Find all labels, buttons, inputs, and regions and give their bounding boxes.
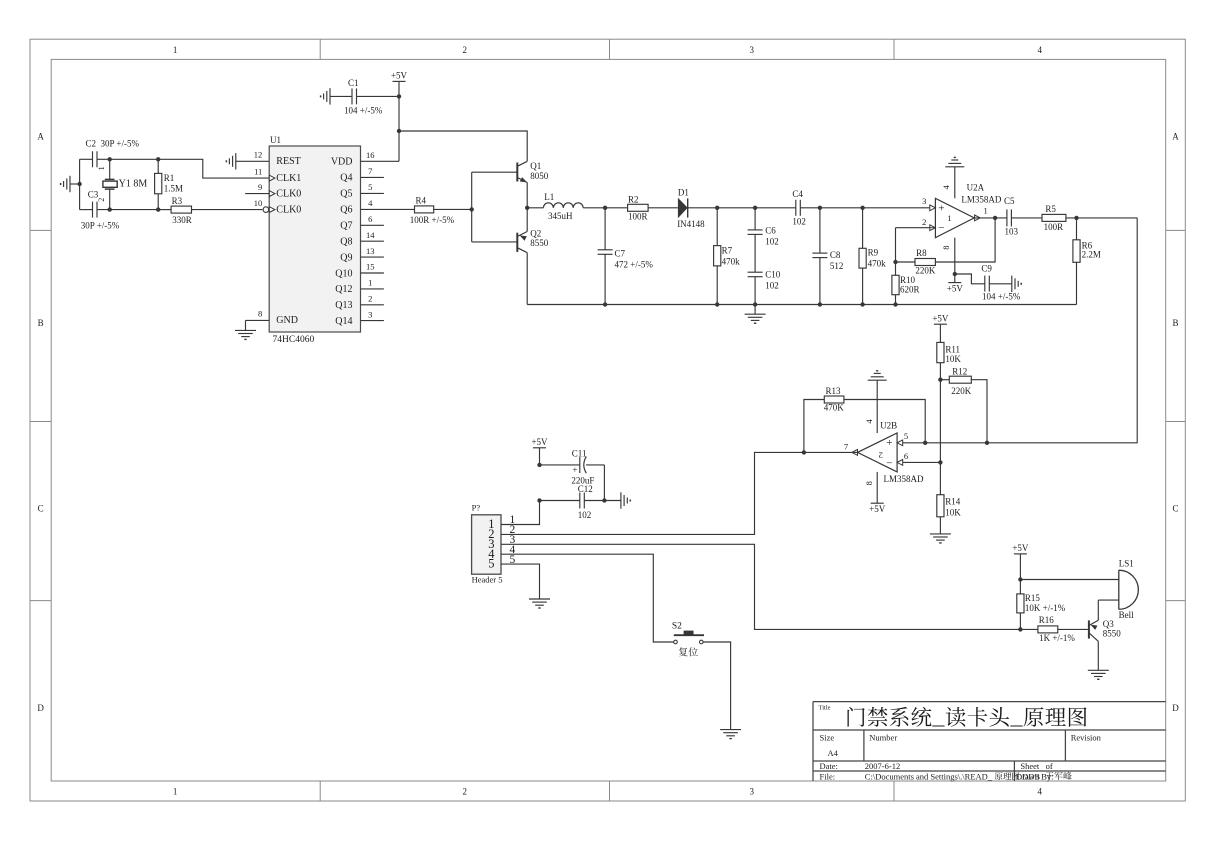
svg-text:Q4: Q4 [340, 173, 352, 184]
svg-text:C8: C8 [830, 250, 841, 260]
svg-text:2.2M: 2.2M [1082, 250, 1101, 260]
svg-text:C:\Documents and Settings\.\RE: C:\Documents and Settings\.\READ_ [865, 771, 993, 781]
svg-text:Q8: Q8 [340, 237, 352, 248]
svg-text:R4: R4 [416, 196, 427, 206]
U2A pin4 wire [941, 167, 955, 199]
svg-text:1K +/-1%: 1K +/-1% [1039, 633, 1075, 643]
svg-text:Q2: Q2 [530, 228, 541, 238]
svg-text:R15: R15 [1025, 593, 1041, 603]
svg-text:LS1: LS1 [1119, 558, 1134, 568]
svg-text:220K: 220K [915, 266, 936, 276]
wire header pin4 [501, 554, 674, 642]
svg-text:2: 2 [922, 217, 926, 227]
capacitor C7 [598, 208, 654, 305]
wire L1 to node [583, 206, 607, 210]
svg-text:6: 6 [368, 214, 372, 224]
transistor Q3 [1089, 600, 1121, 670]
svg-text:A: A [37, 132, 44, 142]
svg-text:1: 1 [173, 787, 178, 797]
svg-text:10K: 10K [945, 354, 961, 364]
node emitter junction [525, 206, 543, 210]
svg-text:R16: R16 [1039, 615, 1055, 625]
svg-text:Title: Title [819, 705, 831, 712]
svg-text:R1: R1 [164, 173, 175, 183]
svg-text:C: C [1172, 504, 1178, 514]
svg-text:R3: R3 [172, 196, 183, 206]
svg-text:4: 4 [368, 198, 373, 208]
op-amp U2A [935, 182, 1001, 237]
svg-text:U2B: U2B [880, 421, 897, 431]
transistor Q2 [517, 208, 549, 305]
svg-text:+: + [572, 465, 577, 475]
svg-text:CLK0: CLK0 [276, 204, 301, 215]
capacitor C2 [80, 139, 159, 168]
svg-text:C12: C12 [578, 484, 593, 494]
svg-text:R7: R7 [722, 245, 733, 255]
svg-text:Q14: Q14 [335, 316, 352, 327]
svg-text:U1: U1 [270, 135, 281, 145]
svg-text:D1: D1 [678, 187, 689, 197]
svg-text:C7: C7 [615, 249, 626, 259]
svg-text:+5V: +5V [1012, 543, 1029, 553]
svg-text:R14: R14 [945, 497, 961, 507]
svg-text:File:: File: [820, 771, 836, 781]
svg-text:3: 3 [922, 196, 926, 206]
speaker LS1 Bell [1119, 558, 1139, 620]
svg-text:LM358AD: LM358AD [961, 194, 1001, 204]
svg-text:470k: 470k [722, 256, 741, 266]
svg-text:3: 3 [750, 45, 755, 55]
svg-text:−: − [886, 457, 892, 469]
svg-text:Q10: Q10 [335, 268, 352, 279]
svg-text:102: 102 [578, 510, 592, 520]
ground (U2B pin4) [868, 371, 887, 380]
svg-text:4: 4 [1037, 45, 1042, 55]
svg-text:30P +/-5%: 30P +/-5% [81, 221, 120, 231]
svg-text:100R: 100R [1044, 222, 1064, 232]
svg-text:8: 8 [864, 481, 874, 485]
connector P? Header 5 [472, 503, 516, 585]
wire header pin5 [501, 564, 540, 599]
svg-text:11: 11 [254, 166, 262, 176]
title text [819, 705, 1087, 727]
svg-text:R13: R13 [826, 386, 842, 396]
svg-text:+: + [886, 437, 892, 449]
svg-text:C9: C9 [981, 263, 992, 273]
ground (C9) [1012, 276, 1021, 292]
svg-text:10K: 10K [945, 508, 961, 518]
svg-text:A: A [1172, 132, 1179, 142]
wire S2 to ground [703, 642, 731, 730]
svg-text:1: 1 [97, 166, 106, 170]
capacitor C4 [792, 189, 806, 226]
resistor R2 [605, 194, 678, 221]
svg-text:D: D [1172, 703, 1179, 713]
svg-text:470k: 470k [868, 258, 887, 268]
svg-text:3: 3 [750, 787, 755, 797]
svg-text:620R: 620R [900, 284, 920, 294]
svg-text:CLK1: CLK1 [276, 173, 301, 184]
revision field [1071, 733, 1102, 743]
wire main rail segment 1 [715, 206, 796, 210]
svg-text:4: 4 [941, 184, 951, 189]
svg-text:Size: Size [820, 733, 835, 743]
svg-text:220K: 220K [951, 386, 972, 396]
svg-text:8: 8 [258, 309, 262, 319]
svg-text:C11: C11 [572, 448, 587, 458]
svg-text:U2A: U2A [967, 182, 985, 192]
svg-text:6: 6 [904, 451, 908, 461]
U2B output pin7 [802, 442, 858, 456]
ground (REST pin) [226, 153, 269, 169]
svg-text:12: 12 [254, 150, 263, 160]
node R15 top [1018, 577, 1119, 581]
svg-text:B: B [1172, 318, 1178, 328]
svg-text:+5V: +5V [947, 283, 964, 293]
svg-text:102: 102 [765, 236, 779, 246]
svg-text:VDD: VDD [331, 157, 353, 168]
svg-text:+5V: +5V [869, 504, 886, 514]
wire base bus [470, 172, 518, 242]
svg-text:103: 103 [1005, 227, 1019, 237]
resistor R4 [361, 196, 472, 225]
power +5V (R11) [932, 313, 949, 342]
resistor R1 [155, 157, 183, 212]
resistor R8 [893, 248, 936, 276]
svg-text:+5V: +5V [932, 313, 949, 323]
svg-text:330R: 330R [172, 215, 192, 225]
U2B pin6 wire [897, 451, 943, 465]
svg-text:Number: Number [869, 733, 897, 743]
svg-text:14: 14 [366, 230, 375, 240]
svg-text:470K: 470K [824, 403, 845, 413]
capacitor C5 [1004, 196, 1042, 237]
resistor R15 [1017, 580, 1066, 630]
ground (S2) [720, 730, 741, 739]
svg-text:+5V: +5V [391, 71, 408, 81]
svg-text:D: D [37, 703, 44, 713]
ground (bottom rail) [745, 305, 766, 324]
op-amp U2B [858, 421, 924, 484]
U2A pin8 wire [941, 238, 957, 283]
wire +5V to Q1 collector [399, 131, 527, 161]
svg-text:Q1: Q1 [530, 161, 541, 171]
svg-text:Y1 8M: Y1 8M [119, 179, 148, 190]
svg-text:A4: A4 [828, 748, 839, 758]
svg-text:R2: R2 [628, 194, 639, 204]
capacitor C12 [537, 484, 621, 520]
svg-text:1.5M: 1.5M [164, 184, 183, 194]
wire VDD pin16 [361, 160, 400, 162]
svg-text:IN4148: IN4148 [677, 219, 705, 229]
wire header pin3 [501, 544, 1020, 629]
crystal Y1 [97, 157, 147, 212]
svg-text:REST: REST [276, 156, 300, 167]
svg-text:GND: GND [276, 315, 298, 326]
svg-text:+: + [938, 203, 944, 215]
svg-text:2007-6-12: 2007-6-12 [865, 761, 900, 771]
wire main rail segment 2 [800, 206, 930, 210]
resistor R7 [714, 208, 741, 305]
svg-text:100R: 100R [628, 212, 648, 222]
wire U2B out to header pin2 [501, 452, 804, 534]
ground (C12) [621, 492, 630, 508]
svg-text:C2 30P +/-5%: C2 30P +/-5% [86, 139, 140, 149]
svg-text:C10: C10 [765, 269, 781, 279]
resistor R3 [158, 196, 262, 225]
power +5V (R15) [1012, 543, 1029, 579]
capacitor C10 [748, 269, 781, 304]
svg-text:3: 3 [368, 309, 372, 319]
resistor R5 [1042, 204, 1137, 232]
svg-text:1: 1 [947, 213, 951, 223]
wire top rail to CLK1 [158, 159, 269, 178]
svg-text:2: 2 [463, 787, 468, 797]
resistor R9 [859, 208, 886, 305]
svg-text:2: 2 [463, 45, 468, 55]
svg-text:102: 102 [765, 280, 779, 290]
svg-text:4: 4 [1037, 787, 1042, 797]
svg-text:Date:: Date: [820, 761, 838, 771]
svg-text:8050: 8050 [530, 171, 549, 181]
resistor R10 [892, 262, 920, 305]
svg-text:Revision: Revision [1071, 733, 1102, 743]
ground (U1 pin 8 GND) [235, 320, 269, 339]
svg-text:Q7: Q7 [340, 221, 352, 232]
title block grid [813, 702, 1166, 781]
diode D1 [677, 187, 717, 229]
svg-text:5: 5 [368, 182, 372, 192]
svg-text:CLK0: CLK0 [276, 188, 301, 199]
svg-text:LM358AD: LM358AD [884, 474, 924, 484]
capacitor C11 [537, 448, 604, 500]
ground (Q3) [1088, 670, 1109, 679]
svg-text:C: C [38, 504, 44, 514]
capacitor C3 [80, 190, 159, 231]
U2B pin8 wire [864, 472, 877, 503]
svg-text:P?: P? [472, 503, 481, 513]
svg-text:2: 2 [368, 294, 372, 304]
resistor R12 [940, 367, 987, 443]
svg-text:L1: L1 [544, 192, 554, 202]
svg-text:8550: 8550 [1103, 629, 1122, 639]
svg-text:C6: C6 [765, 225, 776, 235]
svg-text:Q3: Q3 [1103, 619, 1114, 629]
U2B pin4 wire [864, 380, 877, 433]
svg-text:100R +/-5%: 100R +/-5% [410, 215, 455, 225]
resistor R14 [937, 462, 961, 534]
svg-text:Q9: Q9 [340, 252, 352, 263]
svg-text:1: 1 [984, 206, 988, 216]
svg-text:C1: C1 [348, 78, 359, 88]
svg-text:8: 8 [941, 245, 951, 249]
svg-text:Q6: Q6 [340, 205, 352, 216]
svg-text:104 +/-5%: 104 +/-5% [982, 291, 1021, 301]
resistor R11 [937, 342, 962, 379]
svg-text:Q13: Q13 [335, 300, 352, 311]
svg-text:Q5: Q5 [340, 189, 352, 200]
svg-text:104 +/-5%: 104 +/-5% [344, 106, 383, 116]
U2A pin3 arrow [922, 196, 935, 211]
svg-text:R5: R5 [1045, 204, 1056, 214]
svg-text:74HC4060: 74HC4060 [273, 335, 315, 345]
power +5V (U2B pin8) [869, 503, 886, 514]
wire feedback vertical [935, 218, 995, 262]
svg-text:R8: R8 [916, 248, 927, 258]
capacitor C8 [812, 208, 843, 305]
svg-text:2: 2 [879, 450, 883, 460]
number field [869, 733, 897, 743]
svg-text:10: 10 [254, 198, 263, 208]
svg-text:7: 7 [844, 442, 848, 452]
size field [820, 733, 839, 759]
ground (C1) [321, 88, 352, 104]
wire C6 to C10 [754, 234, 756, 272]
capacitor C1 [344, 78, 399, 116]
svg-text:8550: 8550 [530, 238, 549, 248]
svg-text:15: 15 [366, 262, 375, 272]
inductor L1 [543, 192, 583, 221]
svg-text:R12: R12 [952, 367, 967, 377]
ground (header pin5) [529, 599, 550, 608]
wire bottom rail [527, 302, 1076, 306]
svg-text:4: 4 [864, 419, 874, 424]
svg-text:B: B [38, 318, 44, 328]
svg-text:512: 512 [830, 261, 844, 271]
switch S2 [672, 621, 704, 656]
svg-text:Q12: Q12 [335, 284, 352, 295]
resistor R6 [1073, 218, 1101, 305]
wire to U2B [897, 218, 1137, 443]
svg-text:7: 7 [368, 166, 372, 176]
svg-text:Sheet of: Sheet of [1020, 761, 1053, 771]
svg-text:1: 1 [173, 45, 178, 55]
svg-text:345uH: 345uH [548, 211, 573, 221]
power +5V (top) [391, 71, 408, 97]
wire header pin1 [501, 501, 540, 525]
power +5V (C11) [531, 437, 548, 465]
U2A pin2 wire [896, 217, 936, 262]
svg-text:−: − [938, 222, 944, 234]
svg-text:13: 13 [366, 246, 375, 256]
svg-text:C5: C5 [1004, 196, 1015, 206]
svg-text:16: 16 [366, 150, 375, 160]
U2B pin5 arrow [897, 431, 989, 446]
ground (U2A pin4) [945, 157, 964, 166]
capacitor C6 [748, 208, 779, 247]
U2A output pin1 [974, 206, 1007, 221]
svg-text:+5V: +5V [531, 437, 548, 447]
svg-text:1: 1 [368, 278, 372, 288]
wire +5V vertical [397, 94, 401, 161]
svg-text:10K +/-1%: 10K +/-1% [1025, 603, 1066, 613]
date field [820, 761, 1053, 771]
node R11-R12 [938, 378, 942, 463]
capacitor C9 [955, 263, 1021, 301]
node left-vertical [77, 159, 81, 209]
ground (left of crystal) [61, 176, 80, 192]
ground (R14) [930, 534, 951, 543]
svg-text:9: 9 [258, 182, 262, 192]
svg-text:R9: R9 [868, 247, 879, 257]
svg-text:5: 5 [904, 431, 908, 441]
svg-text:2: 2 [97, 198, 106, 202]
power +5V (U2A pin8) [947, 283, 964, 294]
transistor Q1 [517, 161, 549, 208]
svg-text:Header 5: Header 5 [472, 575, 503, 585]
svg-text:5: 5 [488, 557, 494, 571]
file field [820, 771, 1072, 781]
resistor R16 [1018, 615, 1088, 643]
svg-text:102: 102 [792, 216, 806, 226]
svg-text:Bell: Bell [1119, 610, 1134, 620]
IC U1 74HC4060 [245, 135, 384, 345]
resistor R13 [804, 386, 925, 452]
svg-text:S2: S2 [672, 621, 682, 631]
svg-text:C4: C4 [792, 189, 803, 199]
svg-text:472 +/-5%: 472 +/-5% [615, 260, 654, 270]
